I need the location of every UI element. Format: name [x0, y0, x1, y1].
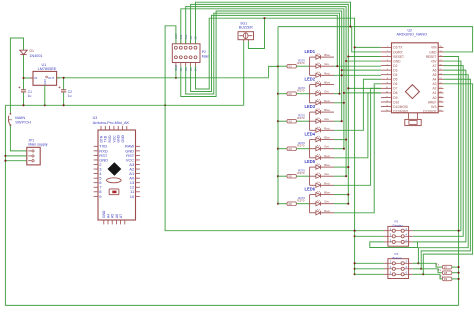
svg-text:VIN: VIN [431, 46, 437, 50]
svg-text:RESET: RESET [426, 55, 437, 59]
svg-text:A3: A3 [432, 82, 436, 86]
svg-text:Main supply: Main supply [28, 143, 47, 147]
svg-text:Gre: Gre [324, 117, 329, 121]
svg-text:LED2: LED2 [305, 77, 316, 82]
svg-text:P2: P2 [202, 50, 206, 54]
svg-text:Blue: Blue [324, 53, 330, 57]
svg-text:DTR: DTR [99, 135, 103, 142]
svg-text:A0: A0 [432, 96, 436, 100]
svg-text:D1: D1 [30, 49, 35, 53]
svg-text:Gre: Gre [324, 90, 329, 94]
svg-text:BUZZER: BUZZER [239, 25, 253, 29]
svg-text:ARDUINO_NANO: ARDUINO_NANO [397, 33, 428, 37]
svg-text:R270: R270 [298, 113, 305, 117]
svg-text:SWITCH: SWITCH [15, 120, 31, 125]
svg-text:A7: A7 [119, 214, 123, 218]
svg-text:D8: D8 [393, 91, 397, 95]
svg-text:SG1: SG1 [240, 21, 247, 25]
svg-text:IN: IN [34, 76, 37, 80]
svg-text:U1: U1 [42, 63, 47, 67]
svg-text:Display: Display [393, 224, 404, 228]
svg-text:D9: D9 [393, 96, 397, 100]
svg-text:GND: GND [121, 135, 125, 143]
svg-text:AREF: AREF [428, 100, 437, 104]
svg-text:D10: D10 [393, 100, 399, 104]
svg-text:LED6: LED6 [305, 187, 316, 192]
svg-text:Gre: Gre [324, 172, 329, 176]
svg-text:OUT: OUT [48, 76, 55, 80]
svg-text:D1/TX: D1/TX [393, 46, 403, 50]
svg-text:LED5: LED5 [305, 159, 316, 164]
svg-text:GND: GND [102, 210, 106, 218]
svg-text:Tx: Tx [436, 263, 440, 267]
svg-text:Red: Red [324, 181, 330, 185]
svg-text:Arduino-Pro-Mini_AK: Arduino-Pro-Mini_AK [93, 120, 130, 125]
svg-text:Gre: Gre [324, 200, 329, 204]
svg-text:1u: 1u [68, 94, 72, 98]
svg-text:Main: Main [202, 54, 209, 58]
svg-text:TXD: TXD [104, 135, 108, 142]
svg-text:LED4: LED4 [305, 132, 316, 137]
svg-text:A5: A5 [111, 214, 115, 218]
svg-text:D11/MOSI: D11/MOSI [393, 105, 408, 109]
svg-text:A4: A4 [432, 78, 436, 82]
svg-text:A6: A6 [115, 214, 119, 218]
svg-text:R270: R270 [298, 86, 305, 90]
svg-text:1u: 1u [28, 94, 32, 98]
svg-text:GND: GND [393, 59, 401, 63]
svg-text:P3: P3 [395, 252, 399, 256]
svg-text:Blue: Blue [324, 136, 330, 140]
svg-text:Button: Button [393, 256, 402, 260]
svg-text:Gre: Gre [324, 145, 329, 149]
svg-text:R270: R270 [298, 196, 305, 200]
svg-text:D2: D2 [393, 64, 397, 68]
svg-text:D0/RX: D0/RX [393, 50, 403, 54]
svg-text:C1: C1 [28, 90, 32, 94]
svg-text:RESET: RESET [393, 55, 404, 59]
svg-text:D6: D6 [393, 82, 397, 86]
svg-text:U2: U2 [408, 29, 413, 33]
svg-text:10: 10 [130, 194, 135, 199]
svg-text:VCC: VCC [112, 135, 116, 143]
svg-text:Tx: Tx [438, 268, 442, 272]
svg-text:Red: Red [324, 71, 330, 75]
svg-text:D13/SCK: D13/SCK [423, 109, 437, 113]
svg-text:A5: A5 [432, 73, 436, 77]
svg-text:Blue: Blue [324, 108, 330, 112]
svg-text:P1: P1 [395, 220, 399, 224]
svg-text:RXD: RXD [108, 135, 112, 143]
svg-text:Red: Red [324, 126, 330, 130]
svg-text:A4: A4 [106, 214, 110, 218]
svg-text:LM7805EE: LM7805EE [38, 67, 57, 71]
svg-text:A1: A1 [432, 91, 436, 95]
svg-text:A2: A2 [432, 87, 436, 91]
svg-text:GND: GND [44, 79, 47, 85]
svg-text:A6: A6 [432, 68, 436, 72]
svg-text:GND: GND [429, 50, 437, 54]
svg-text:A7: A7 [432, 64, 436, 68]
svg-text:Red: Red [324, 209, 330, 213]
svg-text:D4: D4 [393, 73, 397, 77]
svg-text:D7: D7 [393, 87, 397, 91]
svg-text:D3: D3 [393, 68, 397, 72]
svg-text:MAIN: MAIN [15, 115, 25, 120]
svg-text:R270: R270 [298, 168, 305, 172]
svg-text:R270: R270 [298, 141, 305, 145]
svg-text:C2: C2 [68, 90, 72, 94]
svg-text:LED3: LED3 [305, 104, 316, 109]
svg-text:LED1: LED1 [305, 49, 316, 54]
svg-text:Red: Red [324, 154, 330, 158]
svg-text:+5V: +5V [431, 59, 438, 63]
svg-text:1N4001: 1N4001 [30, 54, 43, 58]
svg-text:Blue: Blue [324, 81, 330, 85]
svg-text:3V3: 3V3 [431, 105, 437, 109]
svg-text:R270: R270 [298, 58, 305, 62]
svg-text:D5: D5 [393, 78, 397, 82]
svg-text:Red: Red [324, 99, 330, 103]
svg-text:U3: U3 [93, 116, 98, 120]
svg-text:GND: GND [117, 135, 121, 143]
svg-text:Gre: Gre [324, 62, 329, 66]
svg-text:Blue: Blue [324, 163, 330, 167]
svg-text:Blue: Blue [324, 191, 330, 195]
svg-text:JP1: JP1 [28, 139, 34, 143]
svg-text:D12/MISO: D12/MISO [393, 109, 408, 113]
svg-text:Tx: Tx [440, 274, 444, 278]
